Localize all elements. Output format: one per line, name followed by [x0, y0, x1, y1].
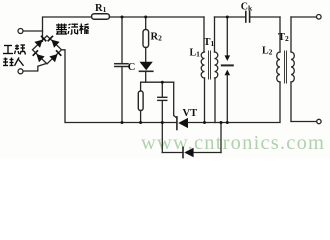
bridge diode D4 bottom-right: [49, 50, 61, 62]
wire top rail middle segment: [110, 16, 205, 18]
label 工频输入 (mains input) hand-drawn glyphs: [3, 45, 26, 66]
transformer T2 secondary winding: [291, 52, 294, 82]
wire C2 bottom to rail: [161, 101, 163, 123]
wire output bottom: [291, 121, 317, 123]
wire top rail left segment: [43, 17, 92, 41]
spark gap electrode upper arrow: [225, 55, 231, 61]
spark gap branch wire top: [226, 17, 228, 56]
wire R2 to diode: [145, 48, 147, 62]
svg-text:C: C: [128, 62, 136, 73]
spark gap branch wire bottom: [226, 75, 228, 123]
wire freewheel loop left: [161, 123, 163, 153]
svg-text:T1: T1: [204, 37, 215, 48]
node junction dot spark gap top: [226, 16, 229, 19]
wire C filter branch bottom: [121, 67, 123, 123]
bridge rectifier outline: [33, 36, 62, 64]
terminal input lower: [18, 69, 23, 74]
wire bottom rail left segment: [66, 122, 177, 124]
node B junction dot R2 top: [144, 16, 147, 19]
wire freewheel loop bottom left: [162, 152, 183, 154]
wire T1 primary top lead: [203, 17, 205, 52]
node junction dot loop left rail: [161, 121, 164, 124]
transformer T1 primary winding: [201, 52, 204, 78]
diode VD1: [140, 62, 153, 72]
terminal output bottom: [317, 119, 321, 123]
wire bottom rail T2 to output: [290, 82, 292, 122]
wire R2 branch top: [145, 17, 147, 30]
capacitor C: [115, 64, 128, 67]
resistor R2: [143, 30, 149, 48]
label 整流桥 (rectifier bridge) hand-drawn glyphs: [56, 24, 89, 35]
wire top rail to output terminal: [291, 16, 316, 18]
bridge diode D1 top-left: [34, 36, 46, 48]
capacitor Ck: [246, 12, 250, 23]
wire T2 secondary top lead: [290, 17, 292, 52]
terminal input upper: [18, 29, 23, 34]
wire T1 secondary top lead: [214, 17, 216, 52]
transformer T1 core: [209, 51, 211, 79]
wire input lower: [23, 64, 46, 71]
wire freewheel loop right: [220, 123, 222, 153]
bridge diode D2 top-right: [48, 36, 60, 48]
wire top rail from T1 to Ck: [215, 16, 245, 18]
node junction dot loop right rail: [220, 121, 223, 124]
wire freewheel loop bottom right: [194, 152, 221, 154]
bridge diode D3 bottom-left: [33, 50, 45, 62]
svg-text:L1: L1: [190, 48, 201, 59]
transformer T1 secondary winding: [215, 52, 218, 78]
thyristor VT: [177, 117, 188, 130]
node junction dot C bottom rail: [121, 121, 124, 124]
wire bottom rail right of VT: [188, 122, 280, 124]
node junction dot R3 bottom rail: [139, 121, 142, 124]
svg-text:www.cntronics.com: www.cntronics.com: [141, 132, 325, 154]
node junction dot spark gap rail: [226, 121, 229, 124]
wire input upper: [23, 30, 42, 32]
resistor R1: [92, 14, 110, 20]
transformer T2 core: [285, 51, 287, 83]
svg-text:L2: L2: [262, 46, 273, 57]
wire bridge to bottom rail: [62, 50, 66, 123]
svg-text:R2: R2: [151, 32, 163, 43]
svg-text:VT: VT: [183, 108, 198, 119]
transformer T2 primary winding: [277, 52, 280, 82]
node junction dot T1 primary rail: [203, 121, 206, 124]
wire top rail from Ck to T2: [251, 16, 280, 18]
resistor R3: [138, 91, 143, 111]
diode VD2: [183, 147, 194, 157]
wire C filter branch top: [121, 17, 123, 63]
spark gap bar: [222, 64, 233, 66]
svg-text:T2: T2: [278, 32, 289, 43]
svg-text:R1: R1: [95, 3, 107, 14]
svg-text:Ck: Ck: [241, 2, 253, 13]
wire gate lead to VT: [174, 82, 177, 118]
node A junction dot R1-C: [121, 16, 124, 19]
wire gate network horizontal: [141, 82, 174, 91]
spark gap electrode lower arrow: [225, 70, 231, 76]
wire T1 primary bottom lead: [204, 78, 206, 123]
capacitor C2: [158, 97, 167, 100]
wire T2 primary bottom lead: [279, 82, 281, 122]
node junction dot gate network: [161, 81, 164, 84]
wire R3 bottom: [140, 111, 142, 123]
wire diode to gate node: [145, 72, 147, 82]
wire T1 secondary bottom lead: [214, 78, 216, 123]
wire T2 primary top lead: [279, 17, 281, 52]
wire C2 branch top: [161, 82, 163, 97]
terminal output top: [317, 14, 322, 19]
